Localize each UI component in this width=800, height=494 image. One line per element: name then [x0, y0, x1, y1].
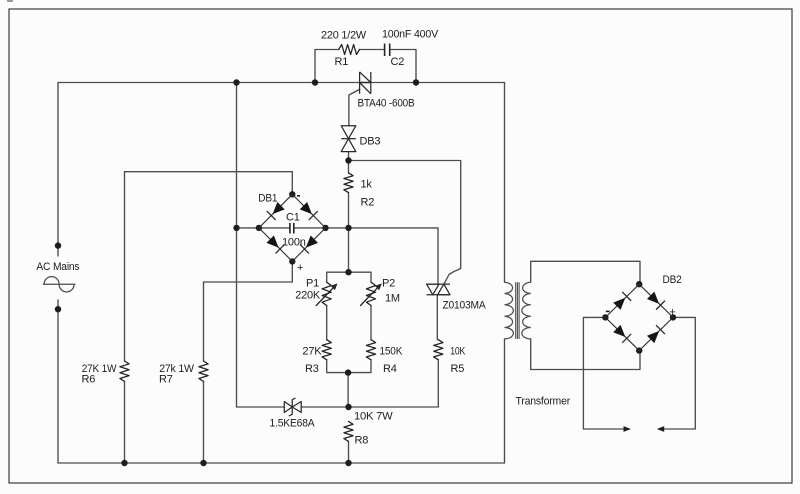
potentiometer P2: [366, 282, 375, 305]
wire R6 bottom: [124, 381, 126, 463]
wire node A to R2: [348, 161, 350, 173]
node top rail R1 branch: [312, 79, 318, 85]
node DB1 right corner: [322, 225, 328, 231]
svg-text:+: +: [297, 262, 303, 274]
wire AC source top stub: [57, 246, 59, 256]
svg-text:DB3: DB3: [360, 136, 381, 148]
node R3 R4 join: [345, 369, 351, 375]
node bottom rail R6: [121, 460, 127, 466]
wire R1 branch left riser: [315, 50, 339, 83]
svg-text:BTA40 -600B: BTA40 -600B: [358, 98, 415, 110]
wire P2 to R4: [370, 306, 372, 340]
wire R8 to bottom rail: [348, 441, 350, 463]
svg-text:100nF 400V: 100nF 400V: [382, 29, 439, 41]
node DB1 bottom corner: [289, 258, 295, 264]
node DB2 bottom corner: [636, 347, 642, 353]
wire P1 to R3: [326, 306, 328, 340]
polarity label minus DB2: [606, 311, 610, 313]
svg-text:DB2: DB2: [663, 274, 682, 286]
DB1 minus mark: [297, 195, 300, 197]
resistor R1: [339, 45, 360, 55]
svg-text:R4: R4: [383, 363, 397, 375]
wire bottom rail: [58, 462, 505, 464]
node pot header: [345, 269, 351, 275]
svg-text:R3: R3: [305, 363, 319, 375]
wire bridge DB1 top stub: [125, 172, 293, 361]
potentiometer P1 arrow: [316, 285, 336, 306]
resistor R7: [199, 361, 208, 381]
svg-text:C1: C1: [286, 212, 300, 224]
wire R1 to C2: [360, 49, 385, 51]
DB2 diode D3 bottom-left: [612, 324, 631, 343]
wire DB2 minus output: [583, 317, 628, 429]
svg-text:Z0103MA: Z0103MA: [443, 300, 487, 312]
wire top rail: [58, 82, 505, 84]
node bottom rail R8: [345, 460, 351, 466]
svg-text:R5: R5: [451, 363, 465, 375]
wire transformer primary bottom: [504, 339, 506, 463]
wire bridge DB1 bottom stub to R7: [204, 261, 293, 361]
svg-text:+: +: [669, 306, 675, 318]
wire DB2 plus output: [660, 317, 696, 429]
capacitor C1: [290, 223, 294, 234]
svg-text:1.5KE68A: 1.5KE68A: [270, 418, 316, 430]
node top rail C2 branch: [413, 79, 419, 85]
svg-text:10K 7W: 10K 7W: [354, 411, 393, 423]
wire TVS to R8 node: [301, 360, 438, 407]
wire node A to Z0103MA gate riser: [349, 161, 461, 285]
scan artifact top-left: [7, 0, 13, 2]
svg-text:220 1/2W: 220 1/2W: [321, 29, 367, 41]
DB1 diode D4 bottom-right: [300, 235, 319, 254]
wire mid node to pot node: [348, 228, 350, 272]
TVS diode 1.5KE68A: [284, 398, 301, 416]
DB1 diode D2 top-right: [299, 201, 318, 220]
svg-text:P2: P2: [382, 278, 395, 290]
capacitor C2: [385, 44, 390, 57]
svg-text:P1: P1: [306, 278, 319, 290]
AC Mains source symbol: [43, 277, 76, 292]
svg-text:1k: 1k: [361, 178, 373, 190]
DB1 diode D1 top-left: [267, 201, 286, 220]
svg-text:C2: C2: [391, 56, 405, 68]
transformer TR1 core: [516, 282, 519, 339]
svg-text:R1: R1: [335, 56, 349, 68]
wire R3 R4 join: [327, 360, 371, 373]
transformer TR1 primary coil: [505, 282, 514, 339]
wire DB3 to node A: [348, 152, 350, 161]
diac DB3: [341, 126, 356, 152]
node mid rail x236: [233, 225, 239, 231]
node DB1 top corner: [289, 191, 295, 197]
wire left rail upper: [57, 83, 59, 246]
node AC top terminal: [55, 242, 61, 248]
node DB2 left corner: [602, 314, 608, 320]
resistor R8: [344, 421, 353, 441]
triac U1 BTA40-600B: [360, 72, 371, 94]
wire R2 bottom to mid node: [348, 193, 350, 228]
output arrow plus lead: [657, 426, 664, 432]
wire AC source bottom stub: [57, 300, 59, 309]
node bottom rail R7: [200, 460, 206, 466]
resistor R4: [366, 340, 375, 360]
node top rail x236: [233, 79, 239, 85]
resistor R5: [434, 340, 443, 360]
node AC bottom terminal: [55, 306, 61, 312]
svg-text:220K: 220K: [295, 290, 321, 302]
svg-text:150K: 150K: [380, 345, 403, 357]
wire transformer primary top: [504, 83, 506, 283]
node R2 bottom: [345, 225, 351, 231]
svg-text:1M: 1M: [385, 293, 400, 305]
DB2 diode D4 bottom-right: [646, 325, 665, 344]
wire pot header: [327, 272, 371, 282]
DB2 diode D1 top-left: [612, 292, 631, 311]
svg-text:R7: R7: [159, 374, 173, 386]
svg-text:R2: R2: [361, 196, 375, 208]
svg-text:DB1: DB1: [258, 193, 277, 205]
potentiometer P2 arrow: [361, 285, 381, 306]
triac U2 Z0103MA: [427, 284, 450, 295]
node A below DB3: [345, 157, 351, 163]
node DB2 right corner: [670, 314, 676, 320]
svg-text:10K: 10K: [450, 345, 466, 357]
wire mid rail right of C1: [294, 228, 438, 284]
resistor R6: [120, 361, 129, 381]
svg-text:R8: R8: [355, 435, 369, 447]
wire secondary bottom to DB2: [531, 339, 640, 370]
wire Z0103MA to R5: [436, 295, 438, 340]
wire join to TVS rail: [347, 373, 349, 407]
node TVS rail R8: [345, 404, 351, 410]
bridge rectifier DB2: [605, 284, 673, 350]
svg-text:R6: R6: [82, 374, 96, 386]
output arrow minus lead: [624, 426, 631, 432]
wire left column x236: [237, 83, 285, 408]
node DB1 left corner: [256, 225, 262, 231]
node DB2 top corner: [636, 281, 642, 287]
potentiometer P1: [322, 282, 331, 305]
resistor R2: [344, 173, 353, 193]
bridge rectifier DB1: [259, 194, 326, 261]
DB2 diode D2 top-right: [646, 291, 665, 310]
svg-text:100n: 100n: [282, 237, 306, 249]
wire R7 bottom: [203, 381, 205, 463]
DB1 diode D3 bottom-left: [266, 235, 285, 254]
transformer TR1 secondary coil: [522, 282, 531, 339]
wire C2 branch right riser: [390, 50, 416, 83]
wire left rail lower: [57, 309, 59, 463]
wire mid rail y228: [237, 227, 290, 229]
wire BTA40 gate to DB3: [349, 89, 360, 125]
svg-text:AC Mains: AC Mains: [36, 261, 80, 273]
wire secondary top to DB2: [531, 261, 640, 284]
svg-text:27K: 27K: [302, 345, 322, 357]
svg-text:Transformer: Transformer: [516, 396, 571, 408]
resistor R3: [322, 340, 331, 360]
